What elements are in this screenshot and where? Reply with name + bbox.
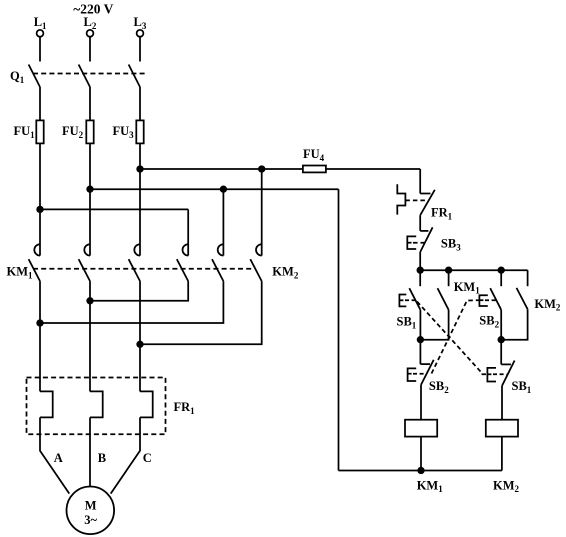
motor M xyxy=(67,487,115,535)
wire KM2 pole d to phase B xyxy=(90,281,188,301)
wire L2 to FU2 xyxy=(89,87,91,120)
pushbutton SB2 NC (interlock) xyxy=(419,340,421,364)
wire L3 drop xyxy=(139,37,141,62)
wire KM2 pole f top xyxy=(261,169,263,256)
node junction SB1/KM1aux xyxy=(418,337,424,343)
coil KM2 xyxy=(486,420,518,437)
fuse FU1 xyxy=(36,120,43,143)
svg-text:KM1: KM1 xyxy=(454,280,481,296)
contact KM1 aux (NO latch) xyxy=(448,270,450,286)
svg-text:KM2: KM2 xyxy=(272,265,299,281)
svg-text:FU3: FU3 xyxy=(113,124,135,140)
switch Q1 link (dashed) xyxy=(33,73,146,75)
link SB2-NC to SB2 (dashed) xyxy=(432,300,480,373)
wire bus L1 to KM2 pole d xyxy=(40,208,188,210)
node L1 terminal xyxy=(37,30,44,37)
svg-text:A: A xyxy=(54,451,63,465)
node junction C-crossover xyxy=(137,342,143,348)
wire bottom rail of control circuit xyxy=(339,470,502,472)
node junction bus2 KM2 drop xyxy=(221,186,227,192)
wire KM2 pole f to phase C xyxy=(140,281,262,344)
svg-text:SB3: SB3 xyxy=(441,237,461,253)
wire SB3 to control bus xyxy=(419,252,421,270)
contactor KM2 pole f contact xyxy=(256,244,262,255)
svg-text:L1: L1 xyxy=(34,15,47,31)
svg-text:M: M xyxy=(85,499,97,513)
svg-text:Q1: Q1 xyxy=(10,69,25,85)
pushbutton SB1 (NO start fwd) xyxy=(419,270,421,286)
svg-text:FU1: FU1 xyxy=(14,124,36,140)
pushbutton SB3 (NC stop) xyxy=(420,230,428,232)
svg-text:KM1: KM1 xyxy=(417,478,444,494)
node junction bus-KM1aux xyxy=(446,267,452,273)
wire phase C to motor xyxy=(111,417,140,493)
svg-text:B: B xyxy=(98,451,106,465)
node junction bus3-FU1 xyxy=(37,207,43,213)
node junction bus1-FU3 xyxy=(137,166,143,172)
pushbutton SB2 (NO start rev) xyxy=(500,270,502,286)
node junction bus1 KM2 drop xyxy=(259,166,265,172)
svg-text:KM2: KM2 xyxy=(493,478,520,494)
svg-text:SB1: SB1 xyxy=(512,379,532,395)
svg-text:~220 V: ~220 V xyxy=(73,2,113,17)
wire phase C below FU3 xyxy=(139,143,141,255)
wire phase A below FU1 xyxy=(39,143,41,255)
contact KM2 aux (NO latch) xyxy=(527,270,529,286)
link SB1 to SB1-NC (dashed) xyxy=(417,302,487,375)
svg-text:KM1: KM1 xyxy=(7,265,34,281)
wire L1 drop xyxy=(39,37,41,62)
contactor KM1 pole 3 contact xyxy=(134,244,140,255)
contactor link KM1-KM2 (dashed) xyxy=(33,268,253,270)
svg-text:FR1: FR1 xyxy=(431,206,453,222)
fuse FU3 xyxy=(136,120,143,143)
node junction SB2/KM2aux xyxy=(498,337,504,343)
contactor KM2 pole e contact xyxy=(218,244,224,255)
fuse FU2 xyxy=(86,120,93,143)
wire phase C below KM1 xyxy=(139,281,141,391)
wire L3 to FU3 xyxy=(139,87,141,120)
wire phase A below KM1 xyxy=(39,281,41,391)
svg-text:SB2: SB2 xyxy=(429,379,449,395)
relay FR1 heater phase C xyxy=(140,391,153,417)
fuse FU4 xyxy=(303,166,326,173)
svg-text:C: C xyxy=(143,451,152,465)
wire control drop from bus1 xyxy=(419,169,421,194)
contactor KM1 pole 1 contact xyxy=(34,244,40,255)
relay FR1 heater phase A xyxy=(40,391,53,417)
coil KM1 xyxy=(405,420,437,437)
svg-text:SB1: SB1 xyxy=(397,315,417,331)
svg-text:KM2: KM2 xyxy=(534,297,561,313)
relay FR1 NC contact xyxy=(420,193,430,195)
pushbutton SB1 NC (interlock) xyxy=(500,340,502,365)
wire L2 drop xyxy=(89,37,91,62)
contactor KM1 pole 2 contact xyxy=(84,244,90,255)
svg-text:SB2: SB2 xyxy=(479,314,499,330)
wire phase B below KM1 xyxy=(89,281,91,391)
relay FR1 heater phase B xyxy=(90,391,103,417)
svg-text:FU2: FU2 xyxy=(62,124,84,140)
contactor KM2 pole d contact xyxy=(183,244,189,255)
wire KM2 pole d top xyxy=(187,209,189,255)
wire L1 to FU1 xyxy=(39,87,41,120)
wire bus L3 to KM2 pole f and FU4 xyxy=(140,168,420,170)
wire phase A to motor xyxy=(40,417,69,493)
svg-text:3~: 3~ xyxy=(84,513,97,527)
node junction bus2-FU2 xyxy=(87,186,93,192)
wire control bus xyxy=(420,269,527,271)
wire bus L2 to KM2 pole e xyxy=(90,188,339,190)
relay FR1 heater box (dashed) xyxy=(27,378,166,435)
wire KM2 pole e top xyxy=(222,189,224,255)
wire left rail of control circuit xyxy=(338,189,340,470)
svg-text:L3: L3 xyxy=(134,15,147,31)
svg-text:L2: L2 xyxy=(84,15,97,31)
wire KM2 pole e to phase A xyxy=(40,281,223,323)
wire phase B below FU2 xyxy=(89,143,91,255)
svg-text:FR1: FR1 xyxy=(174,400,196,416)
switch Q1 pole 1 blade xyxy=(29,65,40,88)
node L3 terminal xyxy=(137,30,144,37)
node junction bus-SB1 xyxy=(417,267,423,273)
wire FR1 to SB3 xyxy=(419,215,421,231)
svg-text:FU4: FU4 xyxy=(303,147,325,163)
node junction KM1 coil bottom xyxy=(418,468,424,474)
node junction bus-SB2 xyxy=(498,267,504,273)
node junction B-crossover xyxy=(87,298,93,304)
switch Q1 pole 2 blade xyxy=(79,65,90,88)
node junction A-crossover xyxy=(37,320,43,326)
switch Q1 pole 3 blade xyxy=(129,65,140,88)
node L2 terminal xyxy=(87,30,94,37)
wire phase B to motor xyxy=(89,417,91,486)
